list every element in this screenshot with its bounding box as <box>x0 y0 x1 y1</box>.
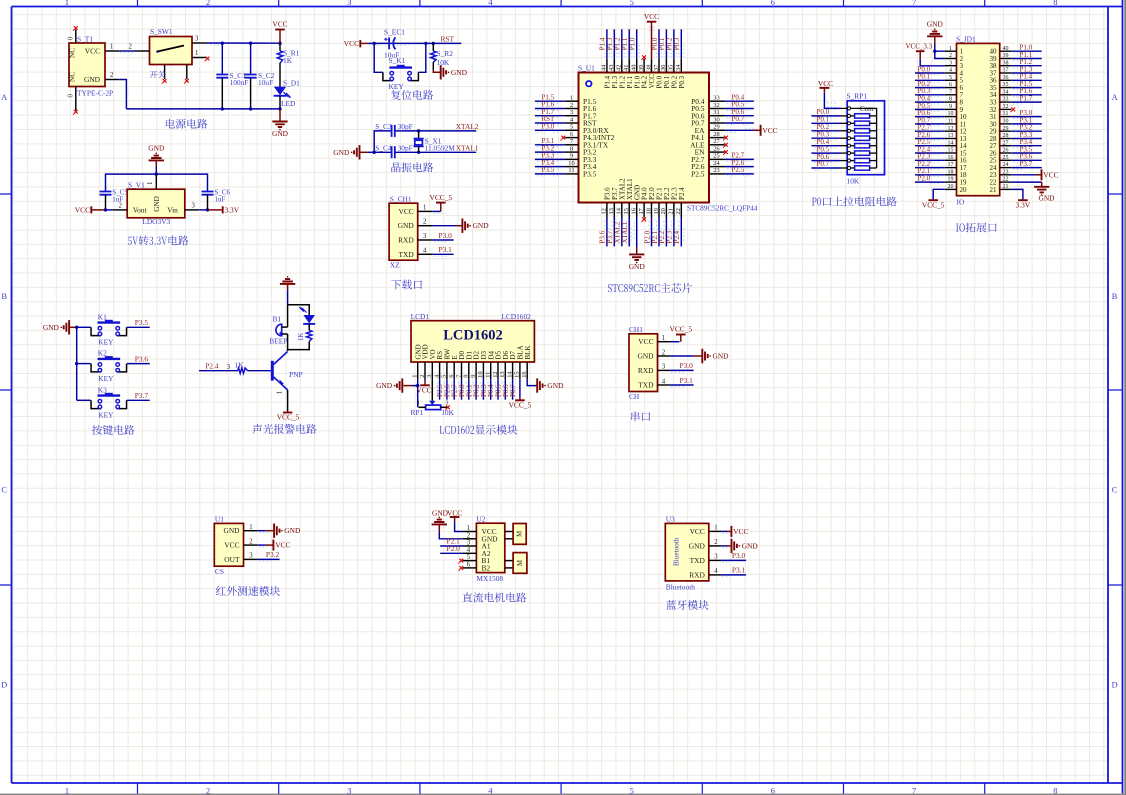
JD1 right pin 37 <box>1000 72 1012 74</box>
window edge <box>1124 0 1126 795</box>
RP1 pin 8 <box>841 160 848 162</box>
RP1 resistor element 3 <box>851 130 855 132</box>
svg-text:VCC_5: VCC_5 <box>430 193 453 202</box>
svg-text:VCC: VCC <box>638 337 653 346</box>
svg-text:GND: GND <box>451 68 468 77</box>
no-ERC MCU pin 26 <box>724 150 728 154</box>
power port VCC MCU <box>651 22 653 59</box>
wire JD1 P0.7 <box>915 123 945 125</box>
JD1 right pin 27 <box>1000 145 1012 147</box>
svg-text:M: M <box>517 531 524 537</box>
svg-text:GND: GND <box>148 144 165 153</box>
svg-text:LED: LED <box>281 99 296 108</box>
MCU top pin 41 P1.1 <box>628 59 630 73</box>
svg-text:GND: GND <box>43 323 60 332</box>
svg-text:VCC: VCC <box>416 386 431 395</box>
LCD display LCD1 <box>411 321 534 362</box>
MCU left pin 6 P4.3/INT2 <box>565 137 579 139</box>
wire net P0.6 to RP1 <box>811 160 840 162</box>
svg-text:A: A <box>1 93 7 102</box>
MCU bottom pin 14 XTAL2 <box>621 203 623 218</box>
svg-text:6: 6 <box>949 82 952 88</box>
JD1 left pin 6 <box>945 87 957 89</box>
svg-text:PNP: PNP <box>289 370 303 379</box>
svg-text:23: 23 <box>713 167 719 174</box>
svg-text:20: 20 <box>948 184 954 190</box>
wire net P0.1 to RP1 <box>811 122 840 124</box>
svg-text:LDO3V3: LDO3V3 <box>142 217 170 226</box>
svg-text:GND: GND <box>742 541 759 550</box>
wire MCU bottom XTAL1 <box>628 218 630 247</box>
svg-text:P0.7: P0.7 <box>732 115 745 123</box>
svg-text:Vin: Vin <box>167 205 178 214</box>
svg-text:19: 19 <box>948 177 954 183</box>
wire pin3 net P3.0 <box>433 239 454 241</box>
svg-text:VCC: VCC <box>275 541 290 550</box>
wire JD1 P0.0 <box>915 72 945 74</box>
svg-text:B: B <box>1 292 7 301</box>
svg-text:XTAL1: XTAL1 <box>456 144 479 153</box>
wire JD1 P2.5 <box>915 145 945 147</box>
wire GND to JD1 pins 1-2 <box>935 43 945 58</box>
svg-text:6: 6 <box>771 0 775 7</box>
caption 5V转3.3V电路 <box>128 235 189 245</box>
wire MCU top P1.0 <box>636 29 638 59</box>
wire MCU bottom P3.7 <box>613 218 615 247</box>
svg-text:4: 4 <box>423 247 427 254</box>
svg-text:18: 18 <box>948 169 954 175</box>
no-ERC U2 pins 5,6 <box>459 559 463 563</box>
ground LCD right <box>536 385 537 387</box>
svg-text:16: 16 <box>631 208 638 214</box>
wire VCC rail top <box>206 42 280 44</box>
svg-text:CH1: CH1 <box>629 325 643 334</box>
transistor PNP <box>271 361 274 381</box>
svg-text:11: 11 <box>948 119 954 125</box>
svg-text:VCC: VCC <box>85 47 100 56</box>
RP1 pin 4 <box>841 130 848 132</box>
svg-text:37: 37 <box>653 64 660 71</box>
U3 pin4 net P3.1 <box>721 574 746 576</box>
svg-text:B: B <box>1112 292 1118 301</box>
capacitor S_C1 100nF <box>221 43 223 74</box>
svg-text:RXD: RXD <box>689 570 705 579</box>
svg-text:6: 6 <box>570 131 573 138</box>
pin1 marker circle <box>586 81 591 86</box>
svg-text:1: 1 <box>110 44 113 51</box>
wire to key K2 <box>77 363 91 365</box>
wire MCU top P1.3 <box>613 29 615 59</box>
svg-text:3: 3 <box>249 553 253 560</box>
RP1 resistor element 7 <box>851 160 855 162</box>
svg-text:P3.5: P3.5 <box>542 166 555 174</box>
svg-text:15: 15 <box>514 371 521 377</box>
svg-text:C: C <box>1 486 7 495</box>
svg-text:1uF: 1uF <box>215 195 226 203</box>
svg-text:GND: GND <box>689 541 706 550</box>
svg-text:P2.4: P2.4 <box>673 230 681 243</box>
wire net P0.3 to RP1 <box>811 137 840 139</box>
JD1 right pin 21 <box>1000 188 1012 190</box>
svg-text:VCC: VCC <box>644 12 659 21</box>
LDO pin 2 <box>113 209 127 211</box>
svg-text:2: 2 <box>662 349 666 356</box>
power port 3.3V <box>208 209 223 211</box>
svg-text:35: 35 <box>668 65 675 71</box>
wire JD1 P3.1 <box>1011 123 1041 125</box>
svg-text:S_V1: S_V1 <box>128 180 145 189</box>
no-ERC switch bottom <box>163 79 167 83</box>
svg-text:K3: K3 <box>98 385 107 394</box>
svg-text:P1.0: P1.0 <box>629 37 637 50</box>
wire LCD D7 to P0.7 <box>512 379 514 399</box>
wire JD1 P2.0 <box>915 181 945 183</box>
svg-text:P0.3: P0.3 <box>673 37 681 50</box>
svg-text:3: 3 <box>423 233 427 240</box>
capacitor S_C6 1uF <box>202 192 214 195</box>
svg-text:18: 18 <box>645 208 652 214</box>
wire VCC to U2 pin1 <box>455 522 463 531</box>
LED S_D1 <box>274 87 286 96</box>
no-ERC JD1 pin 32 <box>1011 108 1015 112</box>
svg-text:XZ: XZ <box>390 260 400 269</box>
push button K3 <box>91 400 101 408</box>
ground reset <box>433 70 440 73</box>
JD1 right pin 22 <box>1000 181 1012 183</box>
svg-text:4: 4 <box>714 568 718 575</box>
push button K1 <box>91 327 101 335</box>
JD1 right pin 29 <box>1000 130 1012 132</box>
wire MCU right P0.4 <box>725 100 754 102</box>
svg-text:TXD: TXD <box>690 556 706 565</box>
wire MCU top P0.2 <box>673 29 675 59</box>
svg-text:P3.2: P3.2 <box>266 550 280 559</box>
wire JD1 P1.3 <box>1011 72 1041 74</box>
svg-text:32: 32 <box>713 102 719 109</box>
JD1 left pin 8 <box>945 101 957 103</box>
svg-text:XTAL2: XTAL2 <box>456 122 479 131</box>
JD1 pin 20 wire to VCC_5 <box>933 189 945 200</box>
bottom rail wire <box>126 108 280 110</box>
wire JD1 P2.3 <box>915 159 945 161</box>
MCU right pin 31 P0.6 <box>709 115 725 117</box>
U2 pin4 net P2.0 <box>440 552 462 554</box>
wire pin3 to 3.3V <box>199 209 207 211</box>
LCD pin16 BLK wire <box>527 379 536 385</box>
no-ERC mark T1 bottom <box>74 110 78 114</box>
capacitor S_C3 30pF <box>392 125 395 137</box>
JD1 right pin 31 <box>1000 116 1012 118</box>
wire MCU left P3.2 <box>535 151 565 153</box>
wire net P0.7 to RP1 <box>811 167 840 169</box>
svg-text:42: 42 <box>616 65 623 71</box>
MCU left pin 4 RST <box>565 122 579 124</box>
svg-text:4: 4 <box>662 378 666 385</box>
module U1 (CS) <box>214 523 243 566</box>
ground key circuit <box>64 320 69 334</box>
svg-text:VCC: VCC <box>224 541 239 550</box>
JD1 pin 21 wire to 3.3V <box>1011 189 1023 200</box>
svg-text:22: 22 <box>1003 177 1009 183</box>
RP1 resistor element 2 <box>851 122 855 124</box>
JD1 right pin 35 <box>1000 87 1012 89</box>
wire LCD D1 to P0.1 <box>468 379 470 399</box>
power port VCC_5 JD1 <box>928 199 938 201</box>
svg-text:TXD: TXD <box>638 381 654 390</box>
svg-text:KEY: KEY <box>389 82 405 91</box>
svg-text:P3.7: P3.7 <box>1020 160 1033 168</box>
svg-text:1: 1 <box>662 335 665 342</box>
wire VCC to RP1 pin1 <box>824 93 840 109</box>
svg-text:Vout: Vout <box>133 205 148 214</box>
svg-text:VCC: VCC <box>75 205 90 214</box>
svg-text:3: 3 <box>192 202 196 209</box>
caption 按键电路 <box>92 425 135 435</box>
ground JD1 bottom <box>1041 182 1043 187</box>
svg-text:P3.0: P3.0 <box>439 231 453 240</box>
svg-text:GND: GND <box>153 196 161 212</box>
svg-text:B1: B1 <box>273 315 282 324</box>
svg-text:1K: 1K <box>235 361 245 370</box>
svg-text:1: 1 <box>147 182 154 185</box>
svg-text:13: 13 <box>608 208 615 214</box>
caption 复位电路 <box>391 90 433 100</box>
svg-text:S_JD1: S_JD1 <box>956 35 976 44</box>
potentiometer RP1 10K <box>429 401 435 405</box>
MCU left pin 5 P3.0/RX <box>565 129 579 131</box>
wire JD1 P3.7 <box>1011 167 1041 169</box>
JD1 left pin 1 <box>945 50 957 52</box>
ground crystal <box>354 145 359 159</box>
svg-text:GND: GND <box>333 148 350 157</box>
ground LCD left <box>403 385 411 387</box>
svg-text:K1: K1 <box>98 312 107 321</box>
U3 pin2 wire GND <box>721 545 727 547</box>
svg-text:RXD: RXD <box>398 236 414 245</box>
svg-text:44: 44 <box>601 64 608 71</box>
wire JD1 P0.2 <box>915 87 945 89</box>
LDO regulator S_V1 <box>127 189 185 218</box>
T1 pin 2 GND <box>105 79 119 81</box>
MCU top pin 40 P1.0 <box>636 59 638 73</box>
svg-text:11.0592M: 11.0592M <box>425 144 456 153</box>
svg-text:33: 33 <box>1003 97 1009 103</box>
svg-text:10: 10 <box>948 111 954 117</box>
no-ERC mark T1 top <box>74 26 78 30</box>
wire net P0.2 to RP1 <box>811 130 840 132</box>
svg-text:2: 2 <box>206 0 210 7</box>
power port 3.3V JD1 <box>1018 199 1028 201</box>
RP1 resistor element 4 <box>851 137 855 139</box>
switch bottom pins <box>164 65 166 80</box>
svg-text:TXD: TXD <box>398 250 414 259</box>
svg-text:5: 5 <box>441 375 448 378</box>
svg-text:S_R2: S_R2 <box>437 49 454 58</box>
wire VCC to LDO pin2 <box>106 209 113 211</box>
svg-text:5: 5 <box>467 554 471 561</box>
wire K3 to net P3.7 <box>127 399 150 401</box>
svg-text:41: 41 <box>623 65 630 71</box>
MCU top pin 42 P1.2 <box>621 59 623 73</box>
JD1 left pin 4 <box>945 72 957 74</box>
resistor 1K vertical (alarm) <box>308 324 310 330</box>
MCU bottom pin 19 P2.1 <box>658 203 660 218</box>
svg-text:GND: GND <box>284 526 301 535</box>
JD1 right pin 33 <box>1000 101 1012 103</box>
wire to key left <box>374 43 383 72</box>
electrolytic capacitor S_EC1 10uF <box>388 37 390 49</box>
wire to key K1 <box>77 326 91 328</box>
ground GND above LDO <box>156 153 158 155</box>
svg-text:S_C3: S_C3 <box>375 122 392 131</box>
svg-text:P2.0: P2.0 <box>918 175 931 183</box>
JD1 left pin 10 <box>945 116 957 118</box>
svg-text:12: 12 <box>601 208 608 214</box>
svg-text:8: 8 <box>949 97 952 103</box>
svg-text:TYPE-C-2P: TYPE-C-2P <box>77 89 113 98</box>
svg-text:2: 2 <box>949 53 952 59</box>
svg-text:VCC_5: VCC_5 <box>922 201 945 210</box>
wire JD1 P2.1 <box>915 174 945 176</box>
svg-text:0: 0 <box>68 36 75 40</box>
JD1 right pin 24 <box>1000 167 1012 169</box>
wire MCU bottom P2.3 <box>673 218 675 247</box>
switch pin 2 (left) <box>135 50 150 52</box>
svg-text:33: 33 <box>713 95 719 102</box>
svg-text:S_EC1: S_EC1 <box>384 27 405 36</box>
RP1 pin 7 <box>841 152 848 154</box>
wire MCU top P1.1 <box>628 29 630 59</box>
svg-text:2: 2 <box>419 375 426 378</box>
U3 pin1 wire VCC <box>721 530 726 532</box>
svg-text:D: D <box>1112 681 1118 690</box>
U1 pin3 net P3.2 <box>258 558 280 560</box>
svg-text:1: 1 <box>195 50 198 57</box>
MCU bottom pin 15 XTAL1 <box>628 203 630 218</box>
U1 pin2 wire VCC <box>258 544 266 546</box>
svg-text:36: 36 <box>1003 75 1009 81</box>
svg-text:RP1: RP1 <box>411 408 424 417</box>
ground alarm top <box>287 276 289 278</box>
wire VCC_3.3 to JD1 pin3 <box>920 59 945 66</box>
RP1 resistor element 1 <box>851 115 855 117</box>
wire LCD D3 to P0.3 <box>482 379 484 399</box>
switch S_SW1 <box>150 37 193 65</box>
svg-text:P3.0: P3.0 <box>732 551 746 560</box>
svg-text:C: C <box>1112 486 1118 495</box>
svg-text:43: 43 <box>608 65 615 71</box>
wire EA to VCC <box>725 129 754 131</box>
wire K2 to net P3.6 <box>127 363 150 365</box>
MCU top pin 36 P0.1 <box>665 59 667 73</box>
svg-text:10K: 10K <box>441 408 454 417</box>
emitter wire to VCC_5 <box>287 390 289 411</box>
svg-text:LCD1: LCD1 <box>411 312 430 321</box>
svg-text:P3.5: P3.5 <box>583 170 597 179</box>
MCU right pin 23 P2.5 <box>709 173 725 175</box>
svg-text:3.3V: 3.3V <box>1016 201 1031 210</box>
JD1 right pin 38 <box>1000 65 1012 67</box>
svg-text:25: 25 <box>1003 155 1009 161</box>
U3 pin3 net P3.0 <box>721 559 746 561</box>
wire JD1 P1.2 <box>1011 65 1041 67</box>
wire LCD D2 to P0.2 <box>475 379 477 399</box>
switch caption 开关 <box>150 71 166 78</box>
power port VCC JD1 <box>1036 174 1042 176</box>
MCU top pin 35 P0.2 <box>673 59 675 73</box>
wire JD1 P3.2 <box>1011 130 1041 132</box>
wire MCU right P0.7 <box>725 122 754 124</box>
svg-text:3: 3 <box>570 109 573 116</box>
svg-text:GND: GND <box>376 381 393 390</box>
wire JD1 P1.7 <box>1011 101 1041 103</box>
wire JD1 P0.4 <box>915 101 945 103</box>
svg-text:P3.6: P3.6 <box>135 354 149 363</box>
wire JD1 P3.6 <box>1011 159 1041 161</box>
svg-text:IO: IO <box>957 197 965 206</box>
wire JD1 P1.4 <box>1011 79 1041 81</box>
wire JD1 P3.0 <box>1011 116 1041 118</box>
switch pin 1 (right) <box>192 57 206 59</box>
ground JD1 top <box>934 28 936 30</box>
T1 bottom pin 0 <box>75 87 77 111</box>
LCD pin2 VCC port <box>424 379 426 380</box>
MCU bottom pin 17 P4.0 <box>643 203 645 218</box>
motor M2 <box>505 560 513 562</box>
svg-text:34: 34 <box>675 64 682 71</box>
svg-text:1: 1 <box>249 524 252 531</box>
svg-text:30pF: 30pF <box>398 122 413 131</box>
CH1 pin2 wire GND <box>670 355 694 357</box>
RP1 resistor element 5 <box>851 145 855 147</box>
svg-text:GND: GND <box>1038 194 1055 203</box>
wire net P0.0 to RP1 <box>811 115 840 117</box>
svg-text:31: 31 <box>713 109 719 116</box>
no-ERC switch pin1 <box>206 57 210 61</box>
no-ERC MCU pin 28 <box>724 136 728 140</box>
svg-text:RXD: RXD <box>638 366 654 375</box>
MCU right pin 30 P0.7 <box>709 122 725 124</box>
svg-text:GND: GND <box>398 221 415 230</box>
RP1 pin 3 <box>841 122 848 124</box>
LCD pin15 BLA to VCC_5 <box>519 379 521 397</box>
wire pin2 to GND <box>433 225 456 227</box>
crystal S_X1 11.0592M <box>418 131 420 139</box>
svg-text:100nF: 100nF <box>230 78 249 87</box>
svg-text:38: 38 <box>645 65 652 71</box>
svg-text:2: 2 <box>249 538 253 545</box>
caption IO拓展口 <box>956 222 997 232</box>
wire MCU right P0.6 <box>725 115 754 117</box>
svg-text:11: 11 <box>485 372 492 378</box>
svg-text:10K: 10K <box>847 177 860 186</box>
svg-text:30pF: 30pF <box>398 144 413 153</box>
wire MCU bottom P2.2 <box>665 218 667 247</box>
svg-text:2: 2 <box>570 102 573 109</box>
buzzer B1 BEEP <box>276 324 282 336</box>
svg-text:P3.1: P3.1 <box>732 566 746 575</box>
svg-text:A: A <box>1112 93 1118 102</box>
svg-text:U1: U1 <box>215 515 224 524</box>
svg-text:VCC_3.3: VCC_3.3 <box>906 42 933 50</box>
JD1 left pin 15 <box>945 152 957 154</box>
svg-text:20: 20 <box>960 186 968 194</box>
MCU bottom pin 16 GND <box>636 203 638 218</box>
svg-text:6: 6 <box>448 375 455 378</box>
MCU right pin 24 P2.6 <box>709 166 725 168</box>
JD1 right pin 40 <box>1000 50 1012 52</box>
wire MCU left P3.0 <box>535 129 565 131</box>
